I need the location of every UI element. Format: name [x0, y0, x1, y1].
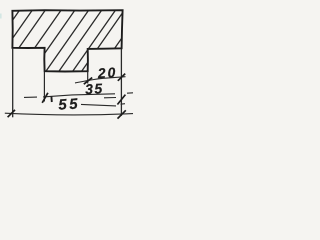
dimension line 20	[75, 77, 126, 83]
svg-text:35: 35	[85, 80, 104, 97]
tick dim20 right	[118, 74, 125, 81]
stray sketch line below 55 label	[81, 104, 125, 106]
extension line tab right (x=87.7)	[87, 72, 89, 84]
tick dim20 left	[84, 78, 92, 85]
svg-text:55: 55	[58, 95, 81, 113]
tick dim55 left	[8, 110, 15, 117]
svg-text:20: 20	[96, 64, 118, 81]
paper background	[0, 0, 142, 126]
scanner artifact mark	[0, 14, 2, 19]
dimension line 35	[24, 93, 133, 98]
extension line right (x=121.5)	[120, 49, 122, 116]
section hatching	[0, 10, 142, 75]
extension line left (x=13)	[12, 48, 14, 117]
extension line step (x=44.5)	[43, 72, 45, 102]
tick dim55 right	[118, 110, 126, 118]
dimension line 55	[5, 113, 133, 115]
stray vertical mark left of 55 label	[50, 96, 52, 102]
tick dim35 right	[117, 95, 125, 105]
profile outline	[12, 10, 122, 71]
tick dim35 left	[42, 93, 48, 103]
